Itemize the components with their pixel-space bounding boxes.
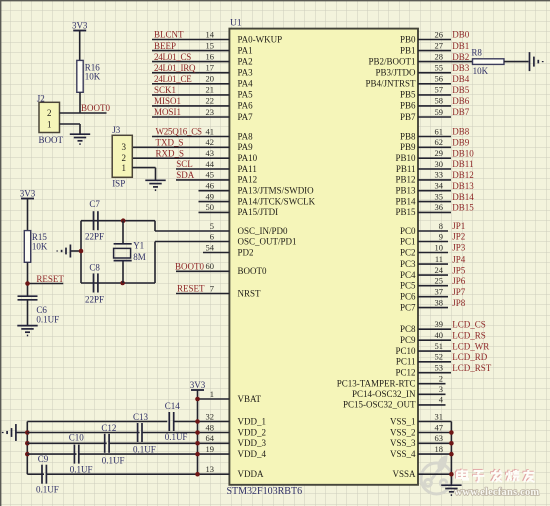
svg-text:2: 2 (47, 108, 52, 118)
svg-text:10K: 10K (85, 71, 101, 81)
svg-text:3V3: 3V3 (190, 380, 206, 390)
svg-text:37: 37 (435, 287, 444, 297)
svg-text:LCD_RST: LCD_RST (452, 363, 492, 373)
svg-text:53: 53 (435, 363, 444, 373)
svg-text:PB13: PB13 (395, 186, 416, 196)
svg-text:19: 19 (206, 444, 215, 454)
svg-text:DB11: DB11 (452, 159, 473, 169)
svg-text:18: 18 (435, 444, 444, 454)
svg-text:DB1: DB1 (452, 41, 469, 51)
svg-text:8M: 8M (133, 252, 146, 262)
svg-text:24L01_CE: 24L01_CE (154, 74, 192, 84)
svg-text:60: 60 (206, 261, 215, 271)
svg-text:PA13/JTMS/SWDIO: PA13/JTMS/SWDIO (238, 186, 315, 196)
svg-text:PC14-OSC32_IN: PC14-OSC32_IN (352, 389, 416, 399)
svg-text:45: 45 (206, 170, 215, 180)
svg-text:PC2: PC2 (400, 247, 416, 257)
svg-text:C10: C10 (69, 433, 85, 443)
svg-text:47: 47 (435, 422, 444, 432)
svg-text:PB14: PB14 (395, 196, 416, 206)
svg-text:JP4: JP4 (452, 254, 466, 264)
svg-text:BOOT0: BOOT0 (175, 262, 204, 272)
svg-text:51: 51 (435, 341, 444, 351)
svg-text:TXD_S: TXD_S (156, 138, 184, 148)
svg-text:PA9: PA9 (238, 142, 254, 152)
svg-text:22PF: 22PF (85, 232, 104, 242)
svg-text:RESET: RESET (177, 284, 205, 294)
svg-text:OSC_OUT/PD1: OSC_OUT/PD1 (238, 236, 297, 246)
svg-text:PA2: PA2 (238, 56, 253, 66)
svg-text:C14: C14 (165, 401, 181, 411)
svg-text:DB13: DB13 (452, 181, 474, 191)
svg-text:56: 56 (435, 74, 444, 84)
svg-text:W25Q16_CS: W25Q16_CS (156, 127, 202, 137)
svg-text:62: 62 (435, 137, 444, 147)
svg-text:DB8: DB8 (452, 127, 470, 137)
svg-text:JP3: JP3 (452, 243, 466, 253)
svg-text:PA14/JTCK/SWCLK: PA14/JTCK/SWCLK (238, 196, 316, 206)
svg-text:PC11: PC11 (396, 357, 416, 367)
svg-text:40: 40 (435, 330, 444, 340)
svg-text:PB10: PB10 (395, 153, 416, 163)
svg-text:VSSA: VSSA (392, 469, 416, 479)
svg-text:2: 2 (122, 153, 127, 163)
svg-text:22: 22 (206, 96, 215, 106)
svg-text:OSC_IN/PD0: OSC_IN/PD0 (238, 226, 289, 236)
svg-text:PC0: PC0 (400, 226, 416, 236)
svg-text:15: 15 (206, 40, 215, 50)
svg-text:0.1UF: 0.1UF (133, 445, 156, 455)
svg-text:49: 49 (206, 191, 215, 201)
svg-text:C9: C9 (38, 454, 49, 464)
svg-text:R8: R8 (471, 48, 482, 58)
svg-text:PA3: PA3 (238, 68, 254, 78)
svg-text:PB8: PB8 (400, 131, 416, 141)
svg-text:38: 38 (435, 297, 444, 307)
svg-text:3: 3 (439, 384, 443, 394)
svg-text:3V3: 3V3 (72, 20, 88, 30)
svg-text:VDD_1: VDD_1 (238, 416, 267, 426)
svg-text:11: 11 (435, 254, 443, 264)
svg-text:SDA: SDA (176, 170, 195, 180)
svg-text:DB2: DB2 (452, 52, 469, 62)
svg-text:LCD_RS: LCD_RS (452, 330, 486, 340)
svg-text:PB7: PB7 (400, 112, 416, 122)
svg-text:54: 54 (206, 242, 215, 252)
svg-text:STM32F103RBT6: STM32F103RBT6 (227, 486, 303, 497)
svg-text:LCD_CS: LCD_CS (452, 319, 486, 329)
svg-text:PA11: PA11 (238, 164, 257, 174)
svg-text:64: 64 (206, 433, 215, 443)
svg-text:PC7: PC7 (400, 302, 416, 312)
svg-text:VSS_3: VSS_3 (390, 438, 416, 448)
svg-text:46: 46 (206, 181, 215, 191)
svg-text:PA1: PA1 (238, 45, 253, 55)
svg-text:50: 50 (206, 202, 215, 212)
svg-text:17: 17 (206, 63, 215, 73)
svg-text:VSS_1: VSS_1 (390, 416, 416, 426)
svg-text:JP6: JP6 (452, 276, 466, 286)
svg-text:MISO1: MISO1 (154, 96, 181, 106)
svg-text:10: 10 (435, 242, 444, 252)
svg-text:J3: J3 (112, 125, 121, 135)
svg-text:58: 58 (435, 96, 444, 106)
svg-text:PA4: PA4 (238, 79, 254, 89)
svg-text:24L01_CS: 24L01_CS (154, 52, 191, 62)
svg-text:JP8: JP8 (452, 298, 466, 308)
svg-text:PA15/JTDI: PA15/JTDI (238, 207, 279, 217)
svg-text:JP2: JP2 (452, 232, 465, 242)
svg-text:33: 33 (435, 170, 444, 180)
svg-text:42: 42 (206, 137, 215, 147)
svg-text:ISP: ISP (112, 179, 125, 189)
svg-text:PB11: PB11 (396, 164, 416, 174)
svg-text:PC4: PC4 (400, 270, 416, 280)
svg-text:57: 57 (435, 85, 444, 95)
svg-text:DB6: DB6 (452, 96, 470, 106)
svg-text:PB0: PB0 (400, 34, 416, 44)
svg-text:PC12: PC12 (395, 368, 415, 378)
svg-text:63: 63 (435, 433, 444, 443)
svg-text:32: 32 (206, 411, 215, 421)
svg-text:PA8: PA8 (238, 131, 254, 141)
svg-text:0.1UF: 0.1UF (36, 315, 59, 325)
svg-text:7: 7 (210, 283, 214, 293)
svg-text:PA5: PA5 (238, 90, 254, 100)
svg-text:9: 9 (439, 231, 443, 241)
svg-text:13: 13 (206, 464, 215, 474)
svg-text:41: 41 (206, 126, 215, 136)
svg-text:24L01_IRQ: 24L01_IRQ (154, 63, 196, 73)
svg-text:34: 34 (435, 181, 444, 191)
svg-text:PB15: PB15 (395, 207, 416, 217)
svg-text:U1: U1 (230, 19, 242, 29)
svg-text:1: 1 (47, 120, 52, 130)
svg-text:0.1UF: 0.1UF (102, 455, 125, 465)
svg-text:6: 6 (210, 231, 214, 241)
svg-text:39: 39 (435, 319, 444, 329)
svg-text:24: 24 (435, 265, 444, 275)
svg-text:10K: 10K (473, 66, 489, 76)
svg-text:PC1: PC1 (400, 236, 416, 246)
svg-text:1: 1 (122, 163, 127, 173)
svg-text:PA0-WKUP: PA0-WKUP (238, 34, 283, 44)
svg-text:VBAT: VBAT (238, 394, 262, 404)
svg-text:PA12: PA12 (238, 175, 258, 185)
svg-text:PC5: PC5 (400, 281, 416, 291)
svg-text:C7: C7 (89, 199, 100, 209)
svg-text:29: 29 (435, 148, 444, 158)
svg-text:PC8: PC8 (400, 324, 416, 334)
svg-text:23: 23 (206, 107, 215, 117)
svg-text:44: 44 (206, 159, 215, 169)
svg-text:RESET: RESET (36, 274, 64, 284)
svg-text:PB5: PB5 (400, 90, 416, 100)
svg-text:PB4/JNTRST: PB4/JNTRST (365, 79, 416, 89)
svg-text:0.1UF: 0.1UF (165, 432, 188, 442)
svg-text:8: 8 (439, 221, 443, 231)
svg-text:27: 27 (435, 40, 444, 50)
svg-text:VDD_2: VDD_2 (238, 427, 267, 437)
svg-text:DB9: DB9 (452, 138, 470, 148)
svg-text:DB4: DB4 (452, 74, 470, 84)
svg-text:PC15-OSC32_OUT: PC15-OSC32_OUT (343, 400, 416, 410)
svg-text:1: 1 (210, 389, 214, 399)
svg-text:14: 14 (206, 29, 215, 39)
svg-text:PA6: PA6 (238, 101, 254, 111)
svg-text:52: 52 (435, 352, 444, 362)
svg-text:SCK1: SCK1 (154, 85, 176, 95)
svg-text:3V3: 3V3 (20, 188, 36, 198)
svg-text:43: 43 (206, 148, 215, 158)
svg-text:DB10: DB10 (452, 148, 474, 158)
svg-text:VSS_2: VSS_2 (390, 427, 416, 437)
svg-text:PB12: PB12 (395, 175, 415, 185)
svg-text:0.1UF: 0.1UF (36, 485, 59, 495)
svg-text:PB1: PB1 (400, 45, 416, 55)
svg-text:5: 5 (210, 221, 214, 231)
svg-text:PD2: PD2 (238, 247, 254, 257)
svg-text:VDD_3: VDD_3 (238, 438, 267, 448)
svg-text:30: 30 (435, 159, 444, 169)
svg-text:55: 55 (435, 63, 444, 73)
svg-text:NRST: NRST (238, 288, 262, 298)
svg-text:SCL: SCL (176, 159, 193, 169)
svg-text:DB12: DB12 (452, 170, 474, 180)
svg-text:BEEP: BEEP (154, 41, 176, 51)
svg-text:PB6: PB6 (400, 101, 416, 111)
svg-text:DB14: DB14 (452, 192, 474, 202)
svg-text:PA7: PA7 (238, 112, 254, 122)
svg-text:C12: C12 (101, 423, 116, 433)
svg-text:21: 21 (206, 85, 215, 95)
svg-text:BOOT0: BOOT0 (238, 266, 267, 276)
svg-text:LCD_RD: LCD_RD (452, 352, 488, 362)
svg-text:DB5: DB5 (452, 85, 470, 95)
svg-text:BLCNT: BLCNT (154, 30, 184, 40)
svg-text:PC13-TAMPER-RTC: PC13-TAMPER-RTC (337, 379, 416, 389)
svg-text:www.elecfans.com: www.elecfans.com (455, 487, 540, 498)
svg-text:C6: C6 (36, 305, 47, 315)
svg-text:Y1: Y1 (133, 240, 144, 250)
svg-text:PB3/JTDO: PB3/JTDO (375, 68, 416, 78)
svg-text:VDD_4: VDD_4 (238, 449, 267, 459)
svg-text:31: 31 (435, 411, 444, 421)
svg-text:PC10: PC10 (395, 346, 416, 356)
svg-text:36: 36 (435, 202, 444, 212)
svg-text:PA10: PA10 (238, 153, 258, 163)
svg-text:20: 20 (206, 74, 215, 84)
svg-text:3: 3 (122, 142, 127, 152)
svg-text:16: 16 (206, 51, 215, 61)
svg-text:26: 26 (435, 29, 444, 39)
svg-text:JP7: JP7 (452, 287, 466, 297)
svg-text:2: 2 (439, 374, 443, 384)
svg-text:PC3: PC3 (400, 259, 416, 269)
svg-text:DB15: DB15 (452, 203, 474, 213)
svg-text:C13: C13 (133, 412, 149, 422)
svg-text:61: 61 (435, 126, 444, 136)
svg-text:JP5: JP5 (452, 265, 466, 275)
svg-text:RXD_S: RXD_S (156, 148, 185, 158)
svg-text:VSS_4: VSS_4 (390, 449, 416, 459)
svg-text:C8: C8 (89, 263, 100, 273)
svg-text:MOSI1: MOSI1 (154, 107, 181, 117)
svg-text:DB0: DB0 (452, 30, 470, 40)
svg-text:10K: 10K (32, 241, 48, 251)
svg-text:0.1UF: 0.1UF (70, 465, 93, 475)
svg-text:22PF: 22PF (85, 295, 104, 305)
svg-text:LCD_WR: LCD_WR (452, 341, 489, 351)
svg-text:BOOT: BOOT (39, 135, 64, 145)
svg-text:BOOT0: BOOT0 (81, 103, 110, 113)
svg-text:PB2/BOOT1: PB2/BOOT1 (368, 56, 415, 66)
svg-text:J2: J2 (37, 93, 45, 103)
svg-text:DB3: DB3 (452, 63, 470, 73)
svg-text:59: 59 (435, 107, 444, 117)
svg-text:PC9: PC9 (400, 335, 416, 345)
svg-text:PB9: PB9 (400, 142, 416, 152)
svg-text:28: 28 (435, 51, 444, 61)
svg-text:35: 35 (435, 191, 444, 201)
svg-text:DB7: DB7 (452, 107, 470, 117)
svg-text:25: 25 (435, 276, 444, 286)
svg-text:VDDA: VDDA (238, 469, 264, 479)
svg-text:JP1: JP1 (452, 221, 465, 231)
svg-text:48: 48 (206, 422, 215, 432)
svg-text:PC6: PC6 (400, 292, 416, 302)
